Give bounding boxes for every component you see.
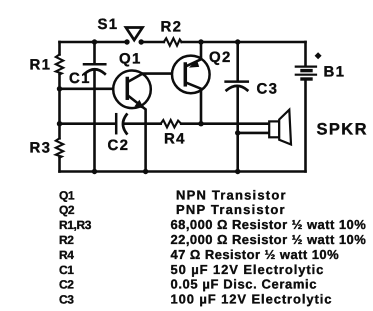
svg-text:R4: R4 [164,131,186,148]
transistor Q2 emitter arrow [189,60,199,68]
svg-text:R4: R4 [59,248,74,262]
battery plus sign [315,52,322,59]
resistor R3 [56,138,63,157]
switch S1 triangle [126,28,143,41]
svg-text:Q2: Q2 [59,203,75,217]
wire C2/R4 line left of C2 [60,122,115,125]
wire top rail right segment to corner [182,41,306,44]
svg-text:Q1: Q1 [119,51,142,68]
junction dot S1 right [139,39,144,44]
junction dot Q2 collector / R4 node [198,121,203,126]
svg-text:47 Ω Resistor ½ watt 10%: 47 Ω Resistor ½ watt 10% [171,247,340,262]
svg-text:S1: S1 [98,16,119,33]
svg-text:R2: R2 [161,19,183,36]
svg-text:C2: C2 [59,278,74,292]
junction dot top rail at C1 [92,39,97,44]
svg-text:PNP Transistor: PNP Transistor [176,202,286,217]
svg-text:C3: C3 [59,293,74,307]
transistor Q2 collector lead (bottom) [187,83,202,124]
wire bottom rail [60,170,306,173]
junction dot bottom rail at Q1 emitter [143,169,148,174]
transistor Q1 emitter arrow [134,100,144,109]
resistor R4 [161,120,182,127]
svg-text:SPKR: SPKR [317,121,368,139]
transistor Q1 base bar [126,79,130,99]
svg-text:C2: C2 [108,137,130,154]
wire right rail upper (to battery) [304,42,307,66]
transistor Q1 emitter lead [129,96,146,172]
transistor Q2 circle [172,56,210,94]
transistor Q1 circle [113,71,151,109]
svg-text:C1: C1 [59,263,74,277]
svg-text:C1: C1 [69,70,91,87]
svg-text:22,000 Ω Resistor ½ watt 10%: 22,000 Ω Resistor ½ watt 10% [171,232,367,247]
svg-text:NPN Transistor: NPN Transistor [176,187,287,202]
speaker SPKR driver [269,121,279,137]
junction dot top rail at C3 [235,39,240,44]
capacitor C2 [116,114,126,133]
svg-text:R2: R2 [59,233,74,247]
svg-text:Q1: Q1 [59,188,75,202]
wire left rail top [58,42,61,55]
battery B1 [296,67,316,79]
svg-text:Q2: Q2 [209,49,232,66]
junction dot top rail at Q2 [198,39,203,44]
wire top rail left segment [60,41,128,44]
speaker SPKR horn [279,110,291,145]
svg-text:68,000 Ω Resistor ½ watt 10%: 68,000 Ω Resistor ½ watt 10% [171,217,367,232]
junction dot left rail C2 line [57,121,62,126]
transistor Q1 collector lead [129,74,185,82]
wire C2 to Q1 emitter crossing to R4 [125,122,161,125]
svg-text:B1: B1 [324,64,346,81]
junction dot S1 left [124,39,129,44]
transistor Q2 emitter lead (top) [187,42,202,66]
wire top rail right of switch through R2 start [141,41,164,44]
junction dot C3 / speaker bottom [235,130,240,135]
junction dot left rail base line [57,86,62,91]
wire Q1 base line [60,88,127,91]
wire left rail bottom [58,158,61,172]
junction dot bottom rail at C3 [235,169,240,174]
wire R4 to Q2 node to speaker [181,122,269,125]
capacitor C1 [84,42,105,172]
svg-text:50 µF 12V Electrolytic: 50 µF 12V Electrolytic [171,262,325,277]
resistor R1 [56,55,63,75]
capacitor C3 [226,42,248,172]
wire right rail lower (battery to bottom corner) [304,81,307,172]
svg-text:R1,R3: R1,R3 [59,218,92,232]
wire speaker bottom lead [238,132,270,135]
svg-text:R1: R1 [30,57,52,74]
svg-text:100 µF 12V Electrolytic: 100 µF 12V Electrolytic [171,292,333,307]
transistor Q2 base bar [184,64,188,85]
junction dot bottom rail at C1 [92,169,97,174]
svg-text:R3: R3 [30,140,52,157]
wire left rail middle [58,75,61,139]
resistor R2 [164,38,182,45]
svg-text:0.05 µF Disc. Ceramic: 0.05 µF Disc. Ceramic [171,277,318,292]
svg-text:C3: C3 [257,81,279,98]
